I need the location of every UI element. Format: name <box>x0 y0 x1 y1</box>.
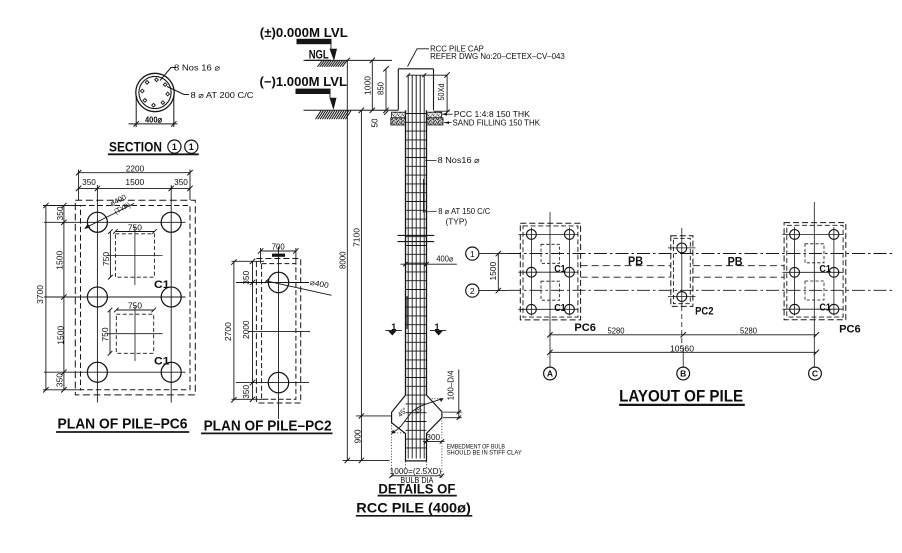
beam PB left dashed <box>581 266 671 278</box>
leader dia 400 TYP diagonal <box>84 192 134 229</box>
label SAND FILLING 150 THK <box>444 118 541 127</box>
pile cap PC6 left inner dashed <box>523 226 578 317</box>
dim 10560 <box>547 344 819 355</box>
pile cap PC2 outer dashed <box>671 236 693 307</box>
PC2 center line <box>681 228 683 347</box>
PC2 pile row lines <box>668 248 696 297</box>
cut-off hatch <box>316 111 351 120</box>
svg-text:2000: 2000 <box>242 320 251 339</box>
leader 8 dia AT 150 C/C <box>423 207 491 226</box>
leader 8 dia AT 200 C/C <box>167 87 254 100</box>
svg-text:PC2: PC2 <box>695 305 713 317</box>
level bar 0.000 <box>297 39 332 49</box>
column C1 upper dashed box <box>107 226 163 285</box>
title RCC PILE 400 <box>356 500 472 516</box>
level label -1.000M LVL <box>260 75 348 89</box>
svg-text:100–D/4: 100–D/4 <box>446 370 455 401</box>
svg-text:50: 50 <box>371 118 380 127</box>
PC6 right pile column lines <box>795 227 834 316</box>
level marker triangle -1.000 <box>330 98 337 110</box>
svg-text:NGL: NGL <box>309 48 329 62</box>
pile cap PC6 right inner dashed <box>787 225 843 317</box>
title DETAILS OF <box>378 480 457 496</box>
svg-text:1: 1 <box>470 249 475 259</box>
bulb outline <box>392 395 442 461</box>
rebar dots 8 Nos <box>140 78 169 107</box>
pile cap PC6 right outer dashed <box>784 223 846 320</box>
svg-text:850: 850 <box>376 82 385 95</box>
dim 2200 top of PC6 <box>76 164 193 200</box>
grid line row 2 <box>508 289 894 291</box>
svg-text:8 ⌀ AT 150 C/C: 8 ⌀ AT 150 C/C <box>438 207 490 216</box>
cut-off ground line -1.000 <box>304 109 399 111</box>
beam PB right dashed <box>693 266 784 278</box>
label C1 lower <box>154 356 170 368</box>
C1 boxes left cap <box>541 244 560 300</box>
svg-text:350: 350 <box>82 178 96 187</box>
svg-text:C1: C1 <box>154 279 170 291</box>
tie lap couplers <box>398 179 435 329</box>
pile cap PC6 left outer dashed <box>520 223 580 320</box>
svg-text:400⌀: 400⌀ <box>145 115 163 125</box>
section marker 1 right <box>430 322 446 336</box>
label PC6 right <box>839 323 861 335</box>
dim 350 2000 350 left of PC2 <box>242 259 255 402</box>
svg-text:2200: 2200 <box>126 164 145 173</box>
dim 1500 between rows <box>489 251 501 293</box>
svg-text:8000: 8000 <box>339 251 348 269</box>
NGL hatch <box>318 61 347 67</box>
svg-text:PC6: PC6 <box>574 322 596 334</box>
bulb extension dotted lines <box>392 399 442 478</box>
svg-text:1500: 1500 <box>125 178 144 187</box>
leader 8 Nos16 dia <box>425 156 480 165</box>
pile section 1-1 concrete rings <box>136 73 174 111</box>
section marker 1 left <box>385 322 401 336</box>
svg-text:1000=(2.5XD): 1000=(2.5XD) <box>390 467 442 476</box>
sand block left <box>391 118 406 125</box>
svg-text:PLAN OF PILE–PC6: PLAN OF PILE–PC6 <box>58 415 188 432</box>
anchorage length dim line <box>406 73 447 77</box>
pile shaft edges <box>406 110 427 395</box>
dim 50Xd vertical <box>437 72 450 115</box>
dim 300 <box>423 433 445 444</box>
title PLAN OF PILE-PC6 <box>56 415 189 432</box>
dim 1000 vertical <box>363 58 375 113</box>
svg-text:PB: PB <box>728 257 743 269</box>
grid bubble row 2 <box>466 284 508 297</box>
svg-text:DETAILS OF: DETAILS OF <box>378 480 455 496</box>
sand block right <box>427 118 443 125</box>
svg-text:B: B <box>680 369 686 379</box>
svg-text:750: 750 <box>101 327 110 341</box>
PC6 plan outer dashed outline <box>75 200 195 395</box>
toe level extension line <box>343 459 390 461</box>
svg-text:5280: 5280 <box>740 326 757 335</box>
title SECTION 1 1 <box>108 140 199 155</box>
PC2 plan row lines <box>236 283 310 383</box>
bulb top extension line <box>356 415 392 417</box>
svg-text:750: 750 <box>128 224 142 233</box>
svg-text:400⌀: 400⌀ <box>436 255 453 264</box>
label PC2 <box>695 305 713 317</box>
svg-text:1500: 1500 <box>55 250 64 269</box>
labels C1 left cap <box>554 263 566 314</box>
C1 boxes right cap <box>805 244 824 300</box>
svg-text:2: 2 <box>470 286 475 296</box>
bulb 45 degree S curve <box>391 398 443 434</box>
grid line row 1 <box>508 253 894 255</box>
dim 700 top of PC2 <box>258 243 299 264</box>
svg-text:900: 900 <box>353 429 362 443</box>
svg-text:750: 750 <box>102 252 111 266</box>
svg-text:700: 700 <box>272 243 285 252</box>
dim 400 dia at cut <box>401 255 457 267</box>
PC6 right pile circles <box>790 230 839 315</box>
dim 7100 and 900 vertical <box>352 108 364 464</box>
svg-text:PC6: PC6 <box>839 323 861 335</box>
dim 50 vertical <box>371 118 380 127</box>
dim 750 left of upper C1 <box>102 229 113 279</box>
svg-text:LAYOUT OF PILE: LAYOUT OF PILE <box>619 387 743 406</box>
svg-text:RCC PILE (400ø): RCC PILE (400ø) <box>356 500 471 516</box>
svg-text:1: 1 <box>172 142 177 152</box>
title LAYOUT OF PILE <box>619 387 745 406</box>
PC6 plan pile circles <box>87 212 181 382</box>
label PCC 1:4:8 150 THK <box>442 110 531 119</box>
PC6 plan inner dashed outline <box>81 206 191 390</box>
dim bulb dia 1000 <box>389 467 444 485</box>
svg-text:750: 750 <box>128 302 142 311</box>
svg-text:C: C <box>812 369 818 379</box>
dim 350 1500 350 of PC6 <box>76 178 193 191</box>
PC2 plan outer dashed outline <box>256 259 300 404</box>
label 45 deg right <box>413 404 426 417</box>
svg-text:C1: C1 <box>819 263 831 275</box>
level label 0.000M LVL <box>260 26 348 40</box>
svg-text:8 Nos 16 ⌀: 8 Nos 16 ⌀ <box>174 63 220 72</box>
svg-text:350: 350 <box>174 178 188 187</box>
svg-text:SAND FILLING 150 THK: SAND FILLING 150 THK <box>453 118 541 127</box>
dim 350 1500 1500 350 left of PC6 <box>55 203 66 393</box>
label C1 upper <box>154 279 170 291</box>
dim 5280 5280 <box>547 326 819 337</box>
PC2 plan center line and top mark <box>272 247 285 420</box>
NGL ground line <box>304 59 393 61</box>
PC6 plan row center lines <box>44 222 186 372</box>
svg-text:SHOULD BE IN STIFF CLAY: SHOULD BE IN STIFF CLAY <box>447 450 523 457</box>
dim 400 dia of section <box>129 96 178 127</box>
PC6 left pile column lines <box>531 228 569 316</box>
svg-text:300: 300 <box>426 433 440 442</box>
svg-text:5280: 5280 <box>608 326 625 335</box>
svg-text:1500: 1500 <box>489 261 498 280</box>
PC6 left center line <box>549 212 551 336</box>
svg-text:C1: C1 <box>554 302 566 314</box>
svg-text:350: 350 <box>56 206 65 220</box>
dim 850 vertical <box>376 66 388 115</box>
svg-text:SECTION: SECTION <box>109 140 162 155</box>
svg-text:C1: C1 <box>819 301 831 313</box>
label NGL <box>306 48 332 62</box>
PC6 plan column center lines <box>97 185 171 403</box>
svg-text:(−)1.000M LVL: (−)1.000M LVL <box>260 75 348 89</box>
svg-text:C1: C1 <box>554 263 566 275</box>
svg-text:1: 1 <box>189 142 194 152</box>
label PC6 left <box>574 322 596 334</box>
grid bubble A <box>544 336 557 380</box>
svg-text:350: 350 <box>55 373 64 387</box>
pile main rebar <box>408 112 424 459</box>
svg-text:2700: 2700 <box>224 322 233 341</box>
svg-text:10560: 10560 <box>670 344 694 353</box>
column C1 lower dashed box <box>107 306 163 361</box>
title PLAN OF PILE-PC2 <box>201 418 333 435</box>
label 45 deg left <box>396 406 409 419</box>
grid bubble row 1 <box>466 247 508 260</box>
grid bubble C <box>809 336 822 380</box>
svg-text:PLAN OF PILE–PC2: PLAN OF PILE–PC2 <box>204 418 332 435</box>
svg-text:1000: 1000 <box>363 76 372 95</box>
dim 750 top of lower C1 <box>114 302 156 313</box>
svg-text:A: A <box>547 369 553 379</box>
level bar -1.000 <box>296 89 331 98</box>
svg-text:350: 350 <box>242 270 251 284</box>
anchorage bars into cap <box>408 75 424 112</box>
PC6 left pile row lines <box>519 234 579 309</box>
svg-text:PB: PB <box>628 256 643 268</box>
PCC block left <box>392 112 406 118</box>
svg-text:(±)0.000M LVL: (±)0.000M LVL <box>260 26 348 40</box>
pile cap PC2 inner dashed <box>673 238 690 303</box>
PC6 left pile circles <box>527 230 575 315</box>
leader RCC PILE CAP <box>408 45 566 67</box>
right ledge line <box>434 110 450 112</box>
svg-text:8 Nos16 ⌀: 8 Nos16 ⌀ <box>438 156 480 165</box>
dim 2700 left of PC2 <box>224 259 264 402</box>
grid bubble B <box>677 347 690 380</box>
svg-text:8 ⌀ AT 200 C/C: 8 ⌀ AT 200 C/C <box>191 91 254 100</box>
svg-text:7100: 7100 <box>352 228 361 247</box>
level marker triangle NGL <box>330 49 338 61</box>
PC6 right center line <box>813 202 815 336</box>
pile ties <box>406 114 427 448</box>
dim 8000 vertical <box>339 58 350 463</box>
dim 100-D/4 <box>443 370 462 420</box>
svg-text:C1: C1 <box>154 356 170 368</box>
svg-text:REFER DWG No:20–CETEX–CV–043: REFER DWG No:20–CETEX–CV–043 <box>430 52 565 61</box>
dim 750 left of lower C1 <box>101 308 112 356</box>
PCC block right <box>427 112 442 118</box>
pile cap outline <box>398 69 433 110</box>
leader 8 Nos 16 dia <box>160 63 220 80</box>
label PB left <box>628 256 643 268</box>
PC6 right pile row lines <box>783 234 844 309</box>
svg-text:(TYP): (TYP) <box>446 217 468 226</box>
PC2 plan pile circles <box>268 272 288 393</box>
PC2 plan inner dashed outline <box>262 264 296 400</box>
label PB right <box>728 257 743 269</box>
dim 3700 left of PC6 <box>36 203 82 393</box>
note embedment of bulb <box>447 444 523 457</box>
svg-text:3700: 3700 <box>36 285 45 304</box>
leader dia 400 of PC2 <box>265 278 332 295</box>
labels C1 right cap <box>819 263 831 313</box>
PC2 pile circles <box>677 243 687 301</box>
svg-text:350: 350 <box>242 384 251 398</box>
svg-text:1500: 1500 <box>56 325 65 344</box>
dim 750 top of upper C1 <box>113 224 157 234</box>
svg-text:50Xd: 50Xd <box>437 84 446 101</box>
